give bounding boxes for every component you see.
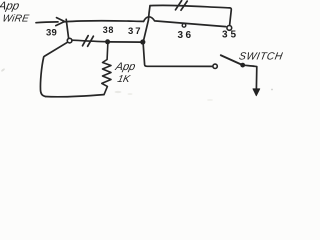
wire top rail with corner down to 35 <box>151 5 232 25</box>
switch left terminal (open circle) <box>213 64 217 68</box>
svg-text:39: 39 <box>46 28 57 39</box>
svg-text:36: 36 <box>178 30 194 41</box>
wire arrow lead-in <box>36 21 58 24</box>
label App (resistor) <box>113 61 136 73</box>
svg-text:35: 35 <box>222 30 239 41</box>
arrowhead into node <box>56 18 65 26</box>
crossover slashes left <box>83 36 94 47</box>
crossover slashes top <box>176 1 188 11</box>
wire switch to down arrow <box>245 65 257 88</box>
wire 39 to 38 <box>72 40 106 42</box>
wire 37 down and right to switch <box>143 44 212 67</box>
label App (top left) <box>0 0 21 12</box>
terminal 35 (open circle) <box>227 26 232 31</box>
switch right terminal (dot) <box>240 63 245 68</box>
terminal 39 (open circle) <box>67 38 72 43</box>
switch arm <box>221 55 241 64</box>
label WIRE <box>1 14 30 25</box>
wire left vertical <box>40 57 45 96</box>
svg-text:App: App <box>113 61 136 73</box>
wire crossover hop and mid rail to 35 <box>144 17 226 27</box>
label 36 <box>178 30 194 41</box>
node 37 (junction dot) <box>140 39 145 44</box>
wire vertical 37 up to top rail <box>144 6 150 41</box>
label 35 <box>222 30 239 41</box>
node 38 (junction dot) <box>105 39 110 44</box>
label SWITCH <box>238 51 284 62</box>
label 37 <box>128 26 143 37</box>
label 39 <box>46 28 57 39</box>
wire vertical from arrow to node 39 <box>66 19 68 38</box>
wire diagonal 39 down-left <box>44 42 67 56</box>
arrowhead down (to ground) <box>253 89 260 96</box>
label 38 <box>103 25 114 35</box>
wire bottom rail <box>45 95 103 97</box>
terminal 36 (small circle tap) <box>182 24 186 28</box>
svg-text:SWITCH: SWITCH <box>238 51 284 62</box>
label 1K <box>116 74 132 85</box>
svg-text:WiRE: WiRE <box>1 14 30 25</box>
svg-text:37: 37 <box>128 26 143 37</box>
wire top bus 39 to junction <box>65 21 144 22</box>
svg-text:App: App <box>0 0 21 12</box>
wire 38 to 37 <box>110 41 141 43</box>
resistor R (App 1K) <box>102 44 111 95</box>
svg-text:38: 38 <box>103 25 114 35</box>
